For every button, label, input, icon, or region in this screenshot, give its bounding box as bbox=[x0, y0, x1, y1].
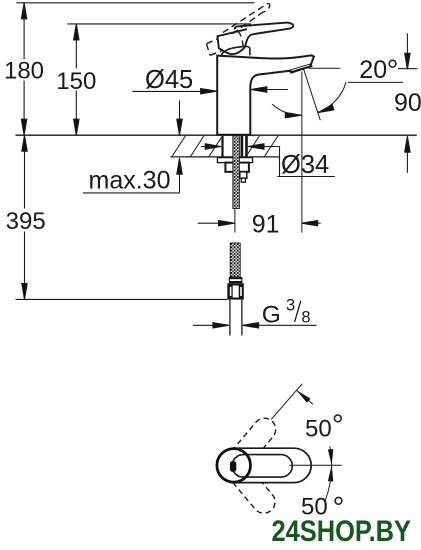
dimension 395 line bbox=[22, 135, 27, 299]
flexible hose lower braided segment bbox=[230, 243, 240, 277]
top view: lever swung +50deg (dashed) bbox=[229, 418, 276, 469]
svg-text:max.30: max.30 bbox=[89, 167, 171, 195]
G3/8 threaded pipe bbox=[229, 300, 231, 336]
dimension Ø45 leader and arrows bbox=[132, 87, 288, 94]
hose fitting A bbox=[240, 172, 247, 178]
dimension 180 line bbox=[21, 3, 26, 135]
svg-text:395: 395 bbox=[6, 208, 46, 235]
mounting shank through countertop bbox=[221, 136, 247, 158]
reference line top (180 extent) bbox=[17, 2, 255, 4]
top view: body circle bbox=[217, 449, 251, 483]
svg-text:G: G bbox=[262, 301, 281, 328]
countertop top line bbox=[16, 134, 417, 136]
top view: lever swung -50deg (dashed) bbox=[228, 462, 275, 513]
dimension 150 line bbox=[74, 24, 79, 135]
dimension Ø34 arrows and leader bbox=[201, 144, 335, 177]
top view: 50deg angle arc with arrows bbox=[325, 446, 332, 501]
top view: lever slot mark bbox=[230, 461, 236, 472]
svg-text:50: 50 bbox=[305, 416, 332, 443]
cartridge dome under lever bbox=[221, 46, 250, 55]
dimension 91 bbox=[198, 221, 321, 226]
svg-text:91: 91 bbox=[252, 211, 280, 239]
20 degree slant line bbox=[304, 70, 321, 121]
dimension max.30 arrows bbox=[83, 100, 182, 193]
countertop hatching left bbox=[171, 135, 242, 158]
20 degree leader lines bbox=[309, 67, 341, 69]
svg-text:20: 20 bbox=[359, 56, 387, 84]
svg-text:Ø45: Ø45 bbox=[145, 66, 193, 94]
aerator bbox=[288, 64, 313, 74]
svg-text:90: 90 bbox=[394, 89, 421, 117]
mounting nut bbox=[225, 163, 249, 172]
svg-text:Ø34: Ø34 bbox=[281, 151, 329, 179]
lever handle raised position (dashed) bbox=[207, 3, 270, 55]
hose collar bbox=[229, 277, 243, 283]
top view: lever outline bbox=[232, 455, 292, 478]
dimension 90 bbox=[398, 33, 417, 173]
spout outlet centerline bbox=[301, 72, 303, 233]
svg-text:24SHOP.BY: 24SHOP.BY bbox=[272, 515, 412, 548]
bottom reference line (395 extent) bbox=[16, 298, 228, 300]
countertop bottom line bbox=[170, 156, 279, 158]
hose break centerline bbox=[234, 209, 236, 233]
20 degree angle arc left bbox=[272, 104, 302, 115]
svg-text:3: 3 bbox=[286, 297, 295, 315]
svg-text:180: 180 bbox=[4, 57, 44, 84]
hose fitting B bbox=[241, 178, 245, 182]
svg-text:150: 150 bbox=[56, 68, 96, 95]
top view: +50deg boundary line bbox=[271, 384, 302, 420]
mounting washer bbox=[217, 158, 252, 163]
top view: upper 50 arrow bbox=[295, 388, 311, 403]
dimension G3/8 bbox=[193, 323, 317, 328]
flexible hose upper braided segment bbox=[233, 136, 240, 209]
reference line 150 extent bbox=[67, 23, 251, 25]
20 degree angle arc right bbox=[318, 82, 346, 112]
top view: horizontal centerline bbox=[290, 464, 342, 466]
svg-text:8: 8 bbox=[301, 309, 310, 327]
G3/8 connection nut bbox=[227, 283, 244, 299]
faucet body and spout bbox=[217, 55, 314, 134]
lever handle (solid position) bbox=[218, 23, 294, 55]
countertop hatching right bbox=[245, 135, 297, 158]
top view: outer body outline bbox=[217, 448, 311, 482]
